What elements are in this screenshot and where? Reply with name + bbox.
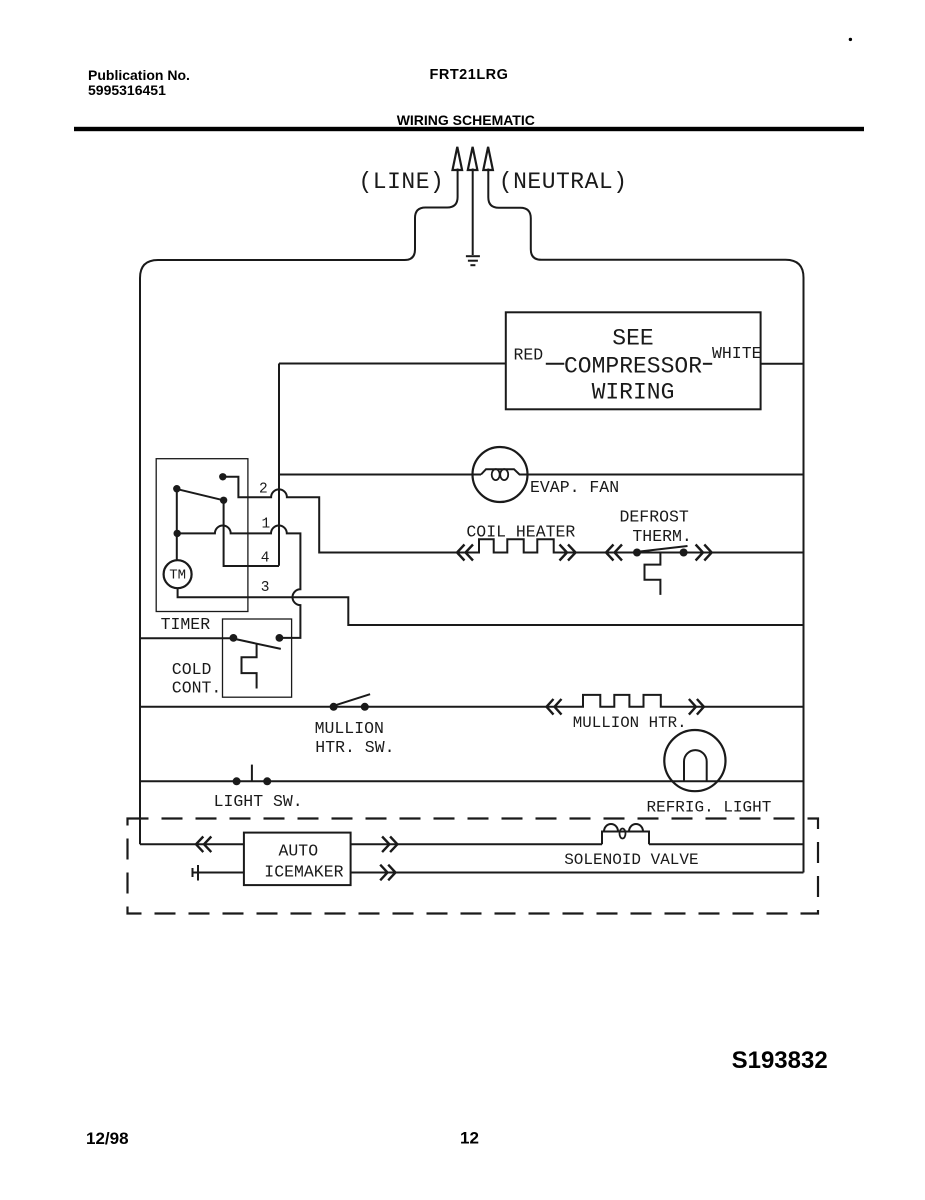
svg-text:CONT.: CONT.: [172, 679, 222, 698]
svg-text:HTR. SW.: HTR. SW.: [315, 738, 394, 757]
svg-text:WHITE: WHITE: [712, 344, 762, 363]
svg-text:(LINE): (LINE): [359, 169, 445, 195]
svg-text:MULLION HTR.: MULLION HTR.: [573, 714, 687, 732]
svg-text:2: 2: [259, 481, 268, 497]
svg-text:WIRING: WIRING: [592, 380, 675, 406]
svg-text:COIL HEATER: COIL HEATER: [466, 523, 575, 542]
svg-text:12: 12: [460, 1129, 479, 1148]
svg-text:4: 4: [261, 550, 270, 566]
svg-text:12/98: 12/98: [86, 1129, 129, 1148]
svg-text:MULLION: MULLION: [315, 719, 384, 738]
svg-text:1: 1: [262, 517, 271, 533]
svg-text:ICEMAKER: ICEMAKER: [264, 863, 343, 882]
svg-text:SEE: SEE: [612, 326, 653, 352]
svg-text:3: 3: [261, 580, 270, 596]
svg-text:Publication No.: Publication No.: [88, 67, 190, 83]
svg-text:RED: RED: [514, 346, 544, 365]
svg-text:FRT21LRG: FRT21LRG: [430, 67, 509, 83]
svg-text:WIRING SCHEMATIC: WIRING SCHEMATIC: [397, 112, 535, 128]
svg-text:THERM.: THERM.: [632, 527, 691, 546]
svg-text:SOLENOID VALVE: SOLENOID VALVE: [564, 851, 698, 869]
svg-text:AUTO: AUTO: [279, 842, 319, 861]
svg-text:S193832: S193832: [732, 1047, 828, 1074]
svg-text:5995316451: 5995316451: [88, 82, 166, 98]
svg-text:REFRIG. LIGHT: REFRIG. LIGHT: [647, 799, 772, 817]
svg-text:COMPRESSOR: COMPRESSOR: [564, 353, 702, 379]
svg-text:(NEUTRAL): (NEUTRAL): [499, 169, 628, 195]
svg-text:DEFROST: DEFROST: [620, 508, 689, 527]
svg-text:LIGHT SW.: LIGHT SW.: [214, 792, 303, 811]
svg-text:COLD: COLD: [172, 660, 212, 679]
svg-text:TIMER: TIMER: [161, 615, 211, 634]
svg-text:EVAP. FAN: EVAP. FAN: [530, 478, 619, 497]
svg-text:TM: TM: [169, 568, 186, 584]
